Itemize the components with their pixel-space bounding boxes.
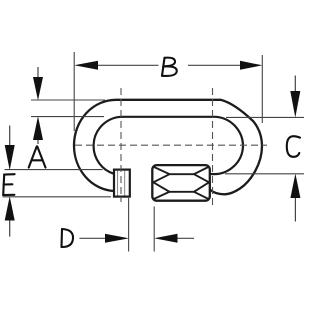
dimension B extension line left	[73, 52, 75, 131]
label D	[62, 229, 74, 247]
dashed horizontal centerline	[75, 144, 267, 146]
dimension C extension line top	[226, 116, 304, 118]
dimension C extension line bottom	[225, 173, 304, 175]
dimension B line right + arrow	[188, 61, 262, 70]
dimension A extension line bottom	[31, 116, 104, 118]
label C	[287, 136, 300, 157]
dimension A extension line top	[31, 99, 105, 101]
nut facet lines	[153, 167, 209, 199]
dimension D extension line right	[153, 207, 155, 252]
dashed vertical centerline right	[212, 88, 214, 205]
hex sleeve nut	[152, 165, 210, 201]
dimension E extension line bottom	[3, 196, 112, 198]
dimension E down arrow	[5, 126, 15, 171]
screw plug rectangle	[114, 170, 130, 197]
dimension A up arrow	[33, 116, 43, 144]
dimension E extension line top	[5, 169, 103, 171]
dimension B line left + arrow	[74, 61, 158, 70]
dimension A down arrow	[33, 67, 43, 100]
dimension D extension line left	[128, 198, 130, 252]
dimension E up arrow	[5, 196, 15, 236]
label E	[3, 174, 14, 195]
dimension D left arrow	[79, 234, 128, 243]
dimension D right arrow	[154, 234, 194, 243]
quick link inner contour	[94, 117, 243, 174]
dimension C down arrow	[290, 76, 300, 118]
label B	[162, 58, 177, 76]
dimension C up arrow	[290, 174, 300, 222]
dimension B extension line right	[261, 55, 263, 123]
label A	[29, 147, 46, 168]
plug hatch lines	[117, 171, 119, 196]
quick link outer contour	[74, 100, 262, 195]
dashed vertical centerline left	[120, 88, 122, 202]
